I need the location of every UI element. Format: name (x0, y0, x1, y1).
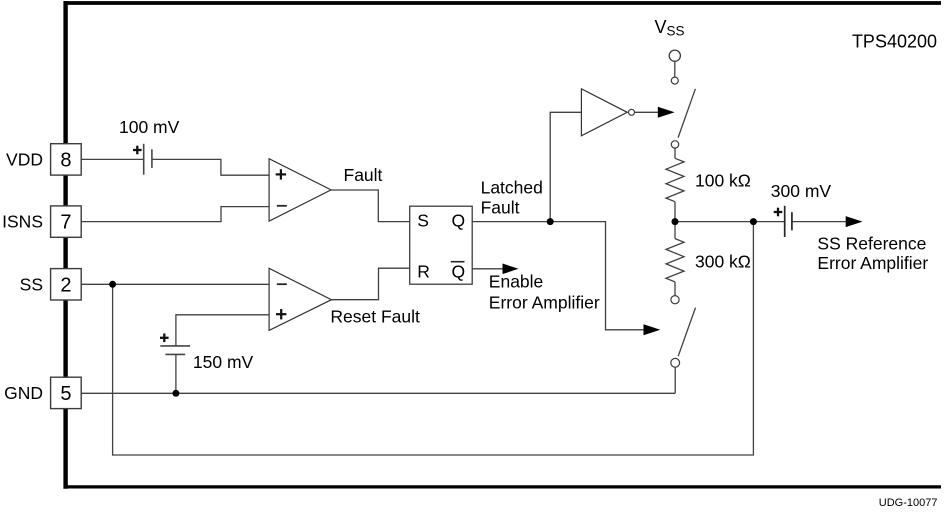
wire comparator U1 output to latch S input (331, 190, 410, 222)
switch S2 pivot contact circle (671, 358, 680, 367)
pin GND box (51, 377, 82, 408)
svg-text:Fault: Fault (481, 198, 520, 218)
comparator U2 (Reset Fault) (269, 268, 331, 330)
100mV battery plus sign (133, 146, 142, 155)
wire comparator U2 output to latch R input (331, 268, 409, 300)
svg-text:Error Amplifier: Error Amplifier (489, 292, 600, 312)
svg-text:GND: GND (4, 383, 43, 403)
wire switch S1 pivot to resistor R1 (674, 148, 676, 158)
arrow SS Reference output (846, 216, 863, 227)
arrow Enable (from Qbar) (503, 264, 519, 275)
comparator U1 - label (277, 205, 287, 207)
wire node B to node C (675, 221, 753, 223)
svg-text:100 mV: 100 mV (119, 117, 180, 137)
pin ISNS box (51, 206, 82, 237)
wire inverter bubble to switch S1 arrow (635, 111, 660, 113)
node GND junction dot (172, 390, 179, 397)
svg-text:R: R (417, 262, 430, 282)
pin SS box (51, 269, 82, 300)
svg-text:Enable: Enable (489, 272, 544, 292)
resistor R2 bottom terminal circle (671, 296, 679, 304)
arrow at switch S1 (658, 107, 675, 118)
300mV battery plus sign (774, 208, 783, 217)
150mV battery B2 plates (160, 346, 190, 355)
svg-text:Fault: Fault (344, 165, 383, 185)
wire ISNS pin to comparator U1 - input (81, 207, 269, 222)
svg-text:VDD: VDD (6, 149, 43, 169)
wire switch S2 pivot down to GND rail (674, 367, 676, 393)
wire latch Q output along bus to corner and down to switch S2 arrow (472, 222, 644, 330)
device boundary: left border (63, 1, 67, 489)
switch S2 blade (678, 308, 695, 357)
150mV battery plus sign (160, 334, 169, 343)
inverter U4 output bubble (629, 109, 635, 115)
svg-text:300 mV: 300 mV (771, 181, 832, 201)
inverter U4 (581, 89, 627, 136)
300mV battery B3 plates (785, 206, 792, 237)
wire VSS terminal to switch S1 top contact (674, 61, 676, 77)
wire latch Qbar output to Enable arrow (472, 268, 504, 270)
wire node A up to inverter input (550, 112, 581, 221)
resistor R2 300k zigzag (666, 239, 684, 282)
VSS terminal circle (669, 50, 680, 61)
svg-text:100 kΩ: 100 kΩ (695, 171, 751, 191)
svg-text:Error Amplifier: Error Amplifier (817, 253, 928, 273)
wire node C to 300mV battery (753, 221, 784, 223)
node B junction dot (672, 218, 679, 225)
wire battery to comparator U1 + input (152, 159, 269, 175)
comparator U1 (Fault) (269, 159, 331, 221)
wire GND rail (81, 392, 675, 394)
svg-text:5: 5 (60, 383, 71, 405)
svg-text:Latched: Latched (481, 178, 543, 198)
switch S1 pivot contact circle (671, 141, 678, 148)
comparator U1 + label (276, 169, 286, 179)
svg-text:150 mV: 150 mV (193, 352, 254, 372)
svg-text:TPS40200: TPS40200 (852, 31, 937, 51)
pin VDD box (51, 144, 82, 175)
arrow at switch S2 (644, 324, 661, 335)
resistor R1 100k zigzag (666, 158, 684, 201)
comparator U2 + label (276, 309, 286, 319)
wire VDD pin to 100mV battery (81, 158, 144, 160)
svg-text:SS: SS (20, 274, 43, 294)
svg-text:Q: Q (452, 211, 466, 231)
device boundary: bottom border (64, 485, 942, 488)
svg-text:Reset Fault: Reset Fault (330, 307, 420, 327)
wire SS pin to comparator U2 - input (82, 283, 270, 285)
svg-text:ISNS: ISNS (2, 212, 43, 232)
svg-text:SS Reference: SS Reference (817, 234, 926, 254)
wire comparator U2 + input to 150mV battery top (176, 315, 269, 346)
wire 150mV battery bottom to GND rail (175, 354, 177, 393)
wire node B to resistor R2 (674, 222, 676, 239)
node SS junction dot (109, 281, 116, 288)
svg-text:8: 8 (60, 150, 71, 172)
device boundary: top border (64, 1, 942, 5)
node C junction dot (750, 218, 757, 225)
svg-text:UDG-10077: UDG-10077 (879, 497, 938, 509)
svg-text:7: 7 (60, 212, 71, 234)
wire SS node down, along bottom, up to node C (113, 222, 754, 455)
wire resistor R1 to node B (674, 202, 676, 222)
svg-text:300 kΩ: 300 kΩ (695, 252, 751, 272)
svg-text:Q: Q (452, 262, 466, 282)
svg-text:S: S (417, 211, 429, 231)
wire resistor R2 to its bottom terminal circle (674, 282, 676, 296)
switch S1 top contact circle (671, 77, 678, 84)
latch U3 SR box (410, 206, 473, 284)
switch S1 blade (678, 89, 695, 138)
node A junction dot (547, 218, 554, 225)
100mV battery B1 plates (144, 144, 152, 175)
svg-text:2: 2 (60, 274, 71, 296)
comparator U2 - label (277, 283, 287, 285)
wire 300mV battery to output arrow (792, 221, 847, 223)
